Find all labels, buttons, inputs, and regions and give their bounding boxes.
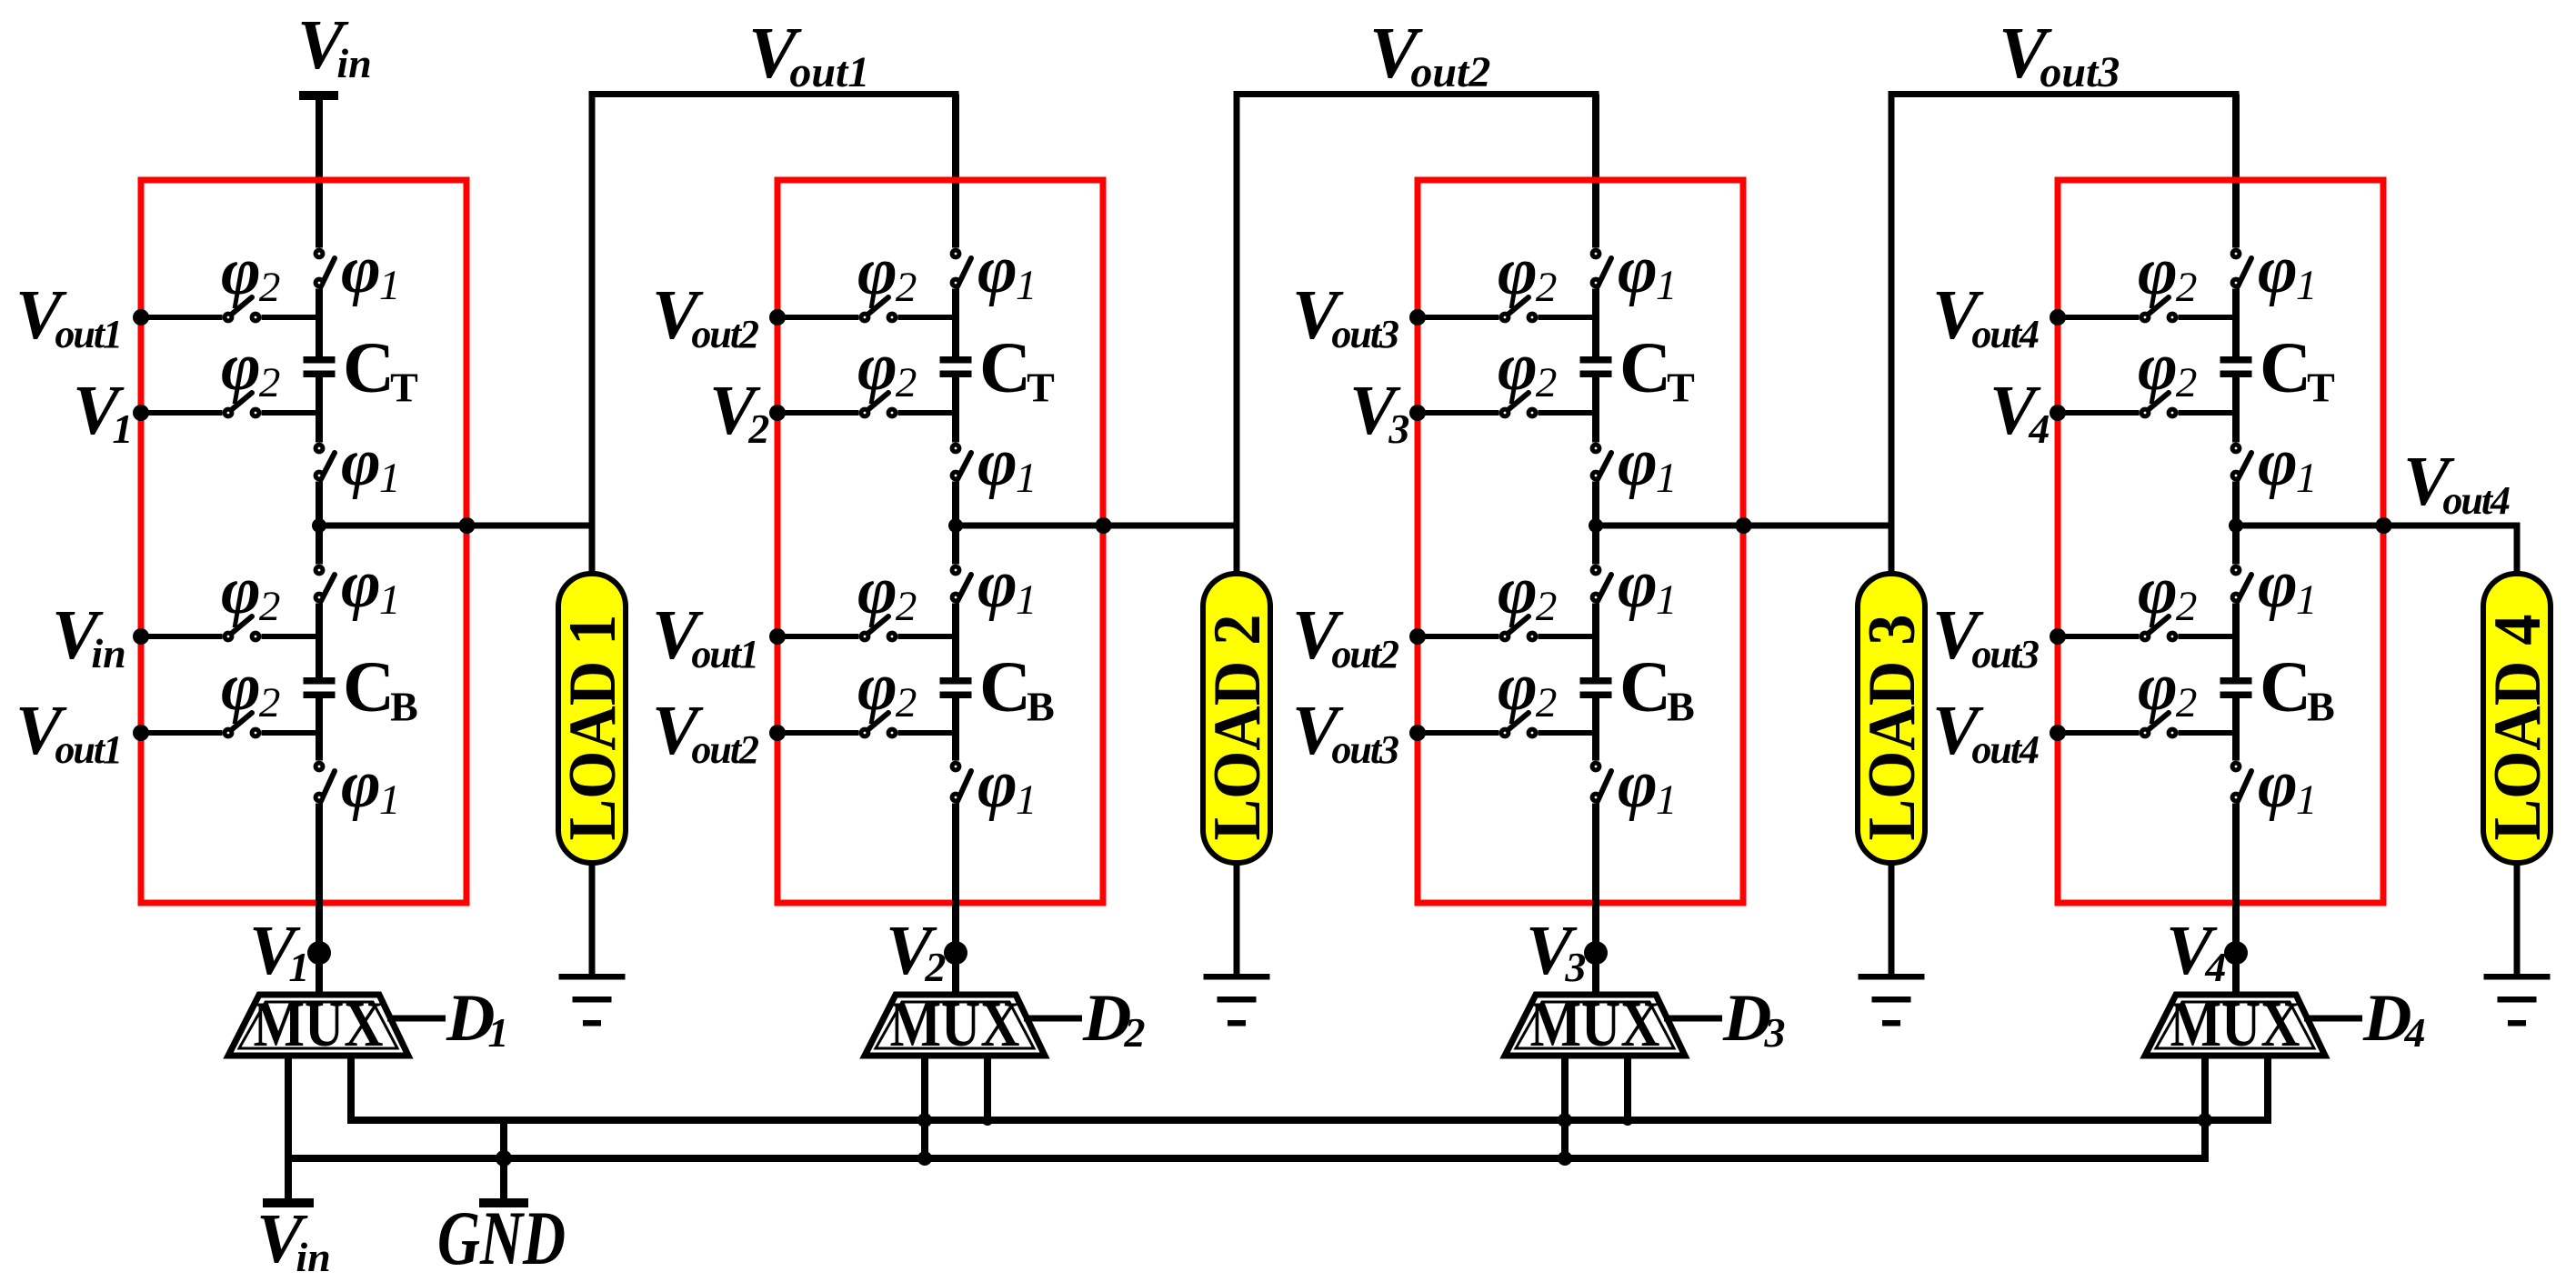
svg-text:MUX: MUX [2170, 989, 2300, 1060]
svg-text:LOAD 2: LOAD 2 [1200, 615, 1275, 841]
svg-text:MUX: MUX [1530, 989, 1660, 1060]
svg-text:MUX: MUX [254, 989, 384, 1060]
svg-text:LOAD 1: LOAD 1 [556, 615, 630, 841]
svg-text:LOAD 3: LOAD 3 [1855, 615, 1929, 841]
svg-text:MUX: MUX [890, 989, 1020, 1060]
svg-text:GND: GND [437, 1196, 566, 1281]
svg-text:LOAD 4: LOAD 4 [2481, 615, 2555, 841]
